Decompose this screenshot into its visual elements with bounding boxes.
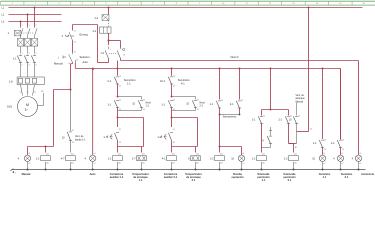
svg-text:2-1: 2-1 <box>192 178 196 182</box>
svg-text:Vent. de: Vent. de <box>75 135 84 138</box>
svg-text:1-1: 1-1 <box>13 57 17 60</box>
svg-text:1-1: 1-1 <box>107 103 111 106</box>
svg-text:4-1: 4-1 <box>181 83 185 86</box>
svg-text:2-1: 2-1 <box>278 119 282 122</box>
svg-text:2-1: 2-1 <box>230 103 234 106</box>
svg-text:10-1: 10-1 <box>160 80 166 83</box>
svg-text:3~: 3~ <box>25 108 29 112</box>
svg-text:Saneamiento: Saneamiento <box>223 116 237 119</box>
svg-text:Auto: Auto <box>90 172 96 176</box>
svg-text:1-1: 1-1 <box>36 158 40 161</box>
svg-text:1-7: 1-7 <box>132 158 136 161</box>
svg-text:1-1: 1-1 <box>262 178 266 182</box>
svg-text:1-1: 1-1 <box>127 83 131 86</box>
svg-text:13: 13 <box>68 63 70 65</box>
svg-text:2-1: 2-1 <box>345 175 349 179</box>
svg-text:1-1: 1-1 <box>209 103 213 106</box>
svg-text:1-2: 1-2 <box>210 158 214 161</box>
svg-text:1-1: 1-1 <box>313 142 317 145</box>
svg-text:4-1: 4-1 <box>162 158 166 161</box>
svg-text:1-7: 1-7 <box>103 136 107 139</box>
svg-text:Asistencia: Asistencia <box>361 172 374 176</box>
svg-text:1-1: 1-1 <box>331 142 335 145</box>
svg-text:Manual: Manual <box>22 172 31 176</box>
svg-text:operación: operación <box>231 175 244 179</box>
svg-text:Nivel 2: Nivel 2 <box>231 55 239 59</box>
svg-text:1-2: 1-2 <box>157 136 161 139</box>
svg-text:arranque: arranque <box>296 97 306 100</box>
svg-text:1-1: 1-1 <box>108 158 112 161</box>
svg-text:1-1: 1-1 <box>252 158 256 161</box>
svg-text:1-2: 1-2 <box>284 158 288 161</box>
svg-text:1-8: 1-8 <box>9 80 13 83</box>
svg-text:auxiliar 2-1: auxiliar 2-1 <box>164 175 178 179</box>
svg-text:1-3: 1-3 <box>94 17 98 20</box>
svg-text:2-1: 2-1 <box>107 80 111 83</box>
svg-text:banda 1-1: banda 1-1 <box>75 139 86 141</box>
svg-text:Auto: Auto <box>83 60 89 64</box>
svg-text:Selector: Selector <box>80 55 90 59</box>
svg-text:M: M <box>26 103 29 107</box>
svg-text:14: 14 <box>76 60 78 62</box>
svg-text:1-1: 1-1 <box>161 103 165 106</box>
svg-text:Vent. de: Vent. de <box>296 94 305 97</box>
svg-text:1-4: 1-4 <box>92 30 96 33</box>
svg-text:Manual: Manual <box>54 62 63 66</box>
svg-text:Emerg: Emerg <box>80 33 89 37</box>
svg-text:1-1: 1-1 <box>139 178 143 182</box>
svg-text:auxiliar 1-1: auxiliar 1-1 <box>110 175 124 179</box>
svg-text:1-1: 1-1 <box>323 175 327 179</box>
svg-text:1-1: 1-1 <box>252 119 256 122</box>
svg-text:4-7: 4-7 <box>61 158 65 161</box>
svg-text:1M1: 1M1 <box>7 106 12 109</box>
svg-text:2-1: 2-1 <box>288 178 292 182</box>
